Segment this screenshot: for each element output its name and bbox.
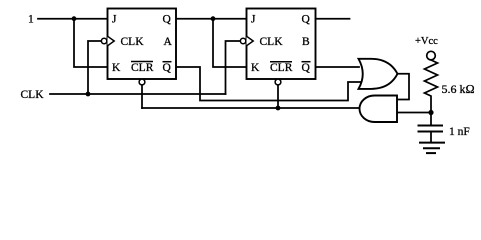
svg-text:Q: Q (302, 14, 311, 26)
svg-text:J: J (112, 14, 117, 26)
svg-text:CLK: CLK (21, 89, 45, 101)
svg-text:1 nF: 1 nF (449, 126, 470, 138)
svg-text:A: A (164, 36, 173, 48)
svg-text:5.6 kΩ: 5.6 kΩ (442, 82, 475, 96)
svg-text:K: K (112, 62, 121, 74)
svg-text:Q: Q (163, 62, 172, 74)
svg-text:B: B (302, 36, 310, 48)
svg-text:Q: Q (302, 62, 311, 74)
svg-text:J: J (251, 14, 256, 26)
svg-text:K: K (251, 62, 260, 74)
svg-text:CLK: CLK (121, 36, 145, 48)
svg-text:1: 1 (28, 14, 34, 26)
svg-text:CLR: CLR (270, 62, 293, 74)
svg-text:Q: Q (163, 14, 172, 26)
svg-text:CLR: CLR (131, 62, 154, 74)
svg-text:CLK: CLK (260, 36, 284, 48)
svg-text:+Vcc: +Vcc (415, 36, 438, 47)
